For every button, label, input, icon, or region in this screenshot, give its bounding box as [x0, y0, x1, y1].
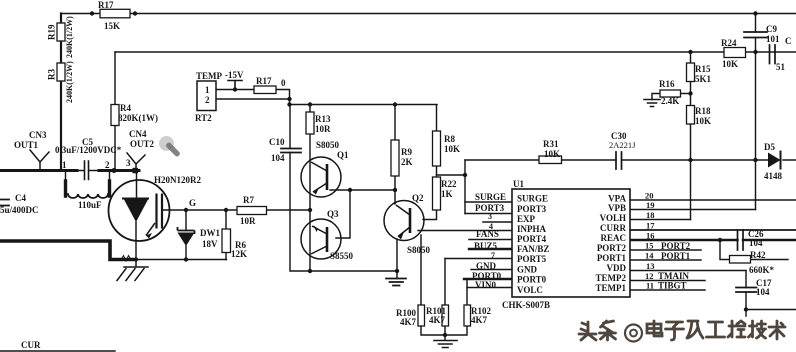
- svg-text:R17: R17: [98, 0, 114, 10]
- svg-text:VOLC: VOLC: [517, 285, 543, 295]
- svg-text:S8050: S8050: [316, 140, 340, 150]
- svg-text:820K(1W): 820K(1W): [118, 113, 158, 123]
- svg-text:TIBGT: TIBGT: [658, 281, 687, 291]
- svg-text:18V: 18V: [202, 239, 218, 249]
- svg-text:BUZ5: BUZ5: [474, 241, 498, 251]
- svg-text:11: 11: [646, 281, 654, 291]
- svg-text:12: 12: [645, 271, 654, 281]
- svg-text:104: 104: [271, 153, 285, 163]
- svg-text:D5: D5: [764, 142, 775, 152]
- svg-text:R15: R15: [695, 64, 711, 74]
- svg-text:OUT2: OUT2: [130, 139, 155, 149]
- svg-text:S8050: S8050: [407, 245, 431, 255]
- svg-text:SURGE: SURGE: [475, 192, 506, 202]
- svg-text:5K1: 5K1: [695, 74, 712, 84]
- svg-text:SURGE: SURGE: [517, 194, 548, 204]
- svg-text:OUT1: OUT1: [14, 140, 39, 150]
- svg-text:R42: R42: [750, 250, 766, 260]
- svg-text:TEMP1: TEMP1: [596, 283, 627, 293]
- svg-text:-15V: -15V: [225, 70, 244, 80]
- svg-text:3: 3: [488, 212, 492, 221]
- svg-text:R16: R16: [659, 79, 675, 89]
- svg-text:240K(1/2W): 240K(1/2W): [65, 61, 74, 103]
- svg-text:R8: R8: [444, 134, 455, 144]
- svg-text:RT2: RT2: [195, 113, 212, 123]
- svg-text:4K7: 4K7: [471, 315, 488, 325]
- svg-text:CUR: CUR: [21, 340, 41, 350]
- svg-text:G: G: [189, 198, 196, 208]
- svg-text:R19: R19: [47, 24, 57, 40]
- svg-text:FANS: FANS: [476, 229, 499, 239]
- svg-text:TEMP: TEMP: [196, 71, 223, 81]
- svg-text:2: 2: [205, 95, 210, 105]
- svg-text:Q3: Q3: [327, 209, 339, 219]
- svg-text:R31: R31: [543, 139, 559, 149]
- svg-text:7: 7: [491, 251, 495, 260]
- svg-text:15K: 15K: [104, 21, 120, 31]
- svg-text:1: 1: [62, 160, 67, 170]
- svg-text:REAC: REAC: [600, 233, 626, 243]
- svg-text:1: 1: [205, 85, 210, 95]
- svg-text:PORT3: PORT3: [517, 204, 547, 214]
- svg-text:4K7: 4K7: [429, 315, 446, 325]
- svg-text:104: 104: [756, 287, 770, 297]
- svg-text:CHK-S007B: CHK-S007B: [502, 300, 550, 310]
- svg-text:VPB: VPB: [608, 203, 626, 213]
- svg-text:2K: 2K: [401, 157, 413, 167]
- svg-text:C10: C10: [269, 137, 285, 147]
- svg-text:PORT2: PORT2: [597, 243, 627, 253]
- svg-text:VOLH: VOLH: [600, 213, 626, 223]
- svg-text:10R: 10R: [240, 216, 256, 226]
- svg-text:GND: GND: [517, 265, 538, 275]
- svg-text:PORT1: PORT1: [597, 253, 627, 263]
- svg-text:4: 4: [489, 222, 493, 231]
- svg-text:C4: C4: [15, 193, 26, 203]
- svg-text:PORT1: PORT1: [661, 251, 691, 261]
- svg-text:3: 3: [126, 158, 131, 168]
- svg-text:R9: R9: [401, 147, 412, 157]
- svg-text:DW1: DW1: [200, 228, 220, 238]
- svg-text:C: C: [785, 36, 792, 46]
- svg-text:10K: 10K: [544, 149, 560, 159]
- svg-text:R18: R18: [695, 106, 711, 116]
- svg-text:13: 13: [646, 261, 655, 271]
- svg-text:2.4K: 2.4K: [661, 96, 679, 106]
- svg-text:VIN0: VIN0: [475, 280, 497, 290]
- svg-text:2A221J: 2A221J: [609, 140, 636, 150]
- svg-text:240K(1/2W): 240K(1/2W): [65, 16, 74, 58]
- svg-text:20: 20: [645, 191, 654, 201]
- svg-text:TEMP2: TEMP2: [596, 273, 627, 283]
- svg-text:FAN/BZ: FAN/BZ: [517, 244, 549, 254]
- svg-text:H20N120R2: H20N120R2: [154, 175, 201, 185]
- svg-text:PORT4: PORT4: [517, 234, 547, 244]
- svg-text:51: 51: [776, 62, 786, 72]
- svg-text:C9: C9: [766, 24, 777, 34]
- svg-text:101: 101: [766, 34, 780, 44]
- svg-text:VDD: VDD: [607, 263, 627, 273]
- svg-text:17: 17: [646, 221, 655, 231]
- svg-text:0.3uF/1200VDC*: 0.3uF/1200VDC*: [55, 145, 122, 155]
- svg-text:104: 104: [749, 238, 763, 248]
- svg-text:16: 16: [646, 231, 655, 241]
- svg-text:5u/400DC: 5u/400DC: [0, 205, 39, 215]
- svg-text:660K*: 660K*: [749, 265, 775, 275]
- svg-text:Q1: Q1: [337, 150, 349, 160]
- svg-text:0: 0: [281, 78, 286, 88]
- svg-text:PORT2: PORT2: [661, 241, 691, 251]
- svg-text:19: 19: [646, 200, 655, 210]
- svg-text:R24: R24: [721, 38, 737, 48]
- svg-text:110uF: 110uF: [78, 200, 102, 210]
- svg-text:TMAIN: TMAIN: [658, 271, 689, 281]
- svg-text:12K: 12K: [231, 249, 247, 259]
- svg-text:R22: R22: [441, 179, 457, 189]
- svg-text:10R: 10R: [315, 124, 331, 134]
- svg-text:INPHA: INPHA: [517, 224, 547, 234]
- svg-text:10K: 10K: [722, 59, 738, 69]
- svg-text:2: 2: [105, 160, 110, 170]
- svg-text:R7: R7: [243, 195, 254, 205]
- svg-text:VPA: VPA: [608, 194, 626, 204]
- svg-text:R13: R13: [315, 114, 331, 124]
- svg-text:CN3: CN3: [29, 130, 47, 140]
- svg-text:GND: GND: [476, 261, 497, 271]
- svg-text:EXP: EXP: [517, 214, 536, 224]
- svg-text:14: 14: [645, 251, 654, 261]
- svg-text:Q2: Q2: [412, 193, 424, 203]
- svg-text:R17: R17: [256, 76, 272, 86]
- svg-text:PORT0: PORT0: [517, 275, 547, 285]
- svg-text:10K: 10K: [695, 116, 711, 126]
- svg-text:CN4: CN4: [129, 129, 147, 139]
- svg-text:4148: 4148: [764, 171, 783, 181]
- svg-text:S8550: S8550: [330, 251, 354, 261]
- svg-text:U1: U1: [513, 179, 524, 189]
- svg-text:1K: 1K: [441, 189, 453, 199]
- svg-text:15: 15: [645, 241, 654, 251]
- svg-text:R3: R3: [47, 69, 57, 80]
- svg-text:18: 18: [646, 210, 655, 220]
- svg-text:PORT5: PORT5: [517, 254, 547, 264]
- svg-text:10K: 10K: [444, 144, 460, 154]
- svg-text:R4: R4: [120, 103, 131, 113]
- svg-text:4K7: 4K7: [400, 317, 417, 327]
- svg-text:CURR: CURR: [600, 223, 626, 233]
